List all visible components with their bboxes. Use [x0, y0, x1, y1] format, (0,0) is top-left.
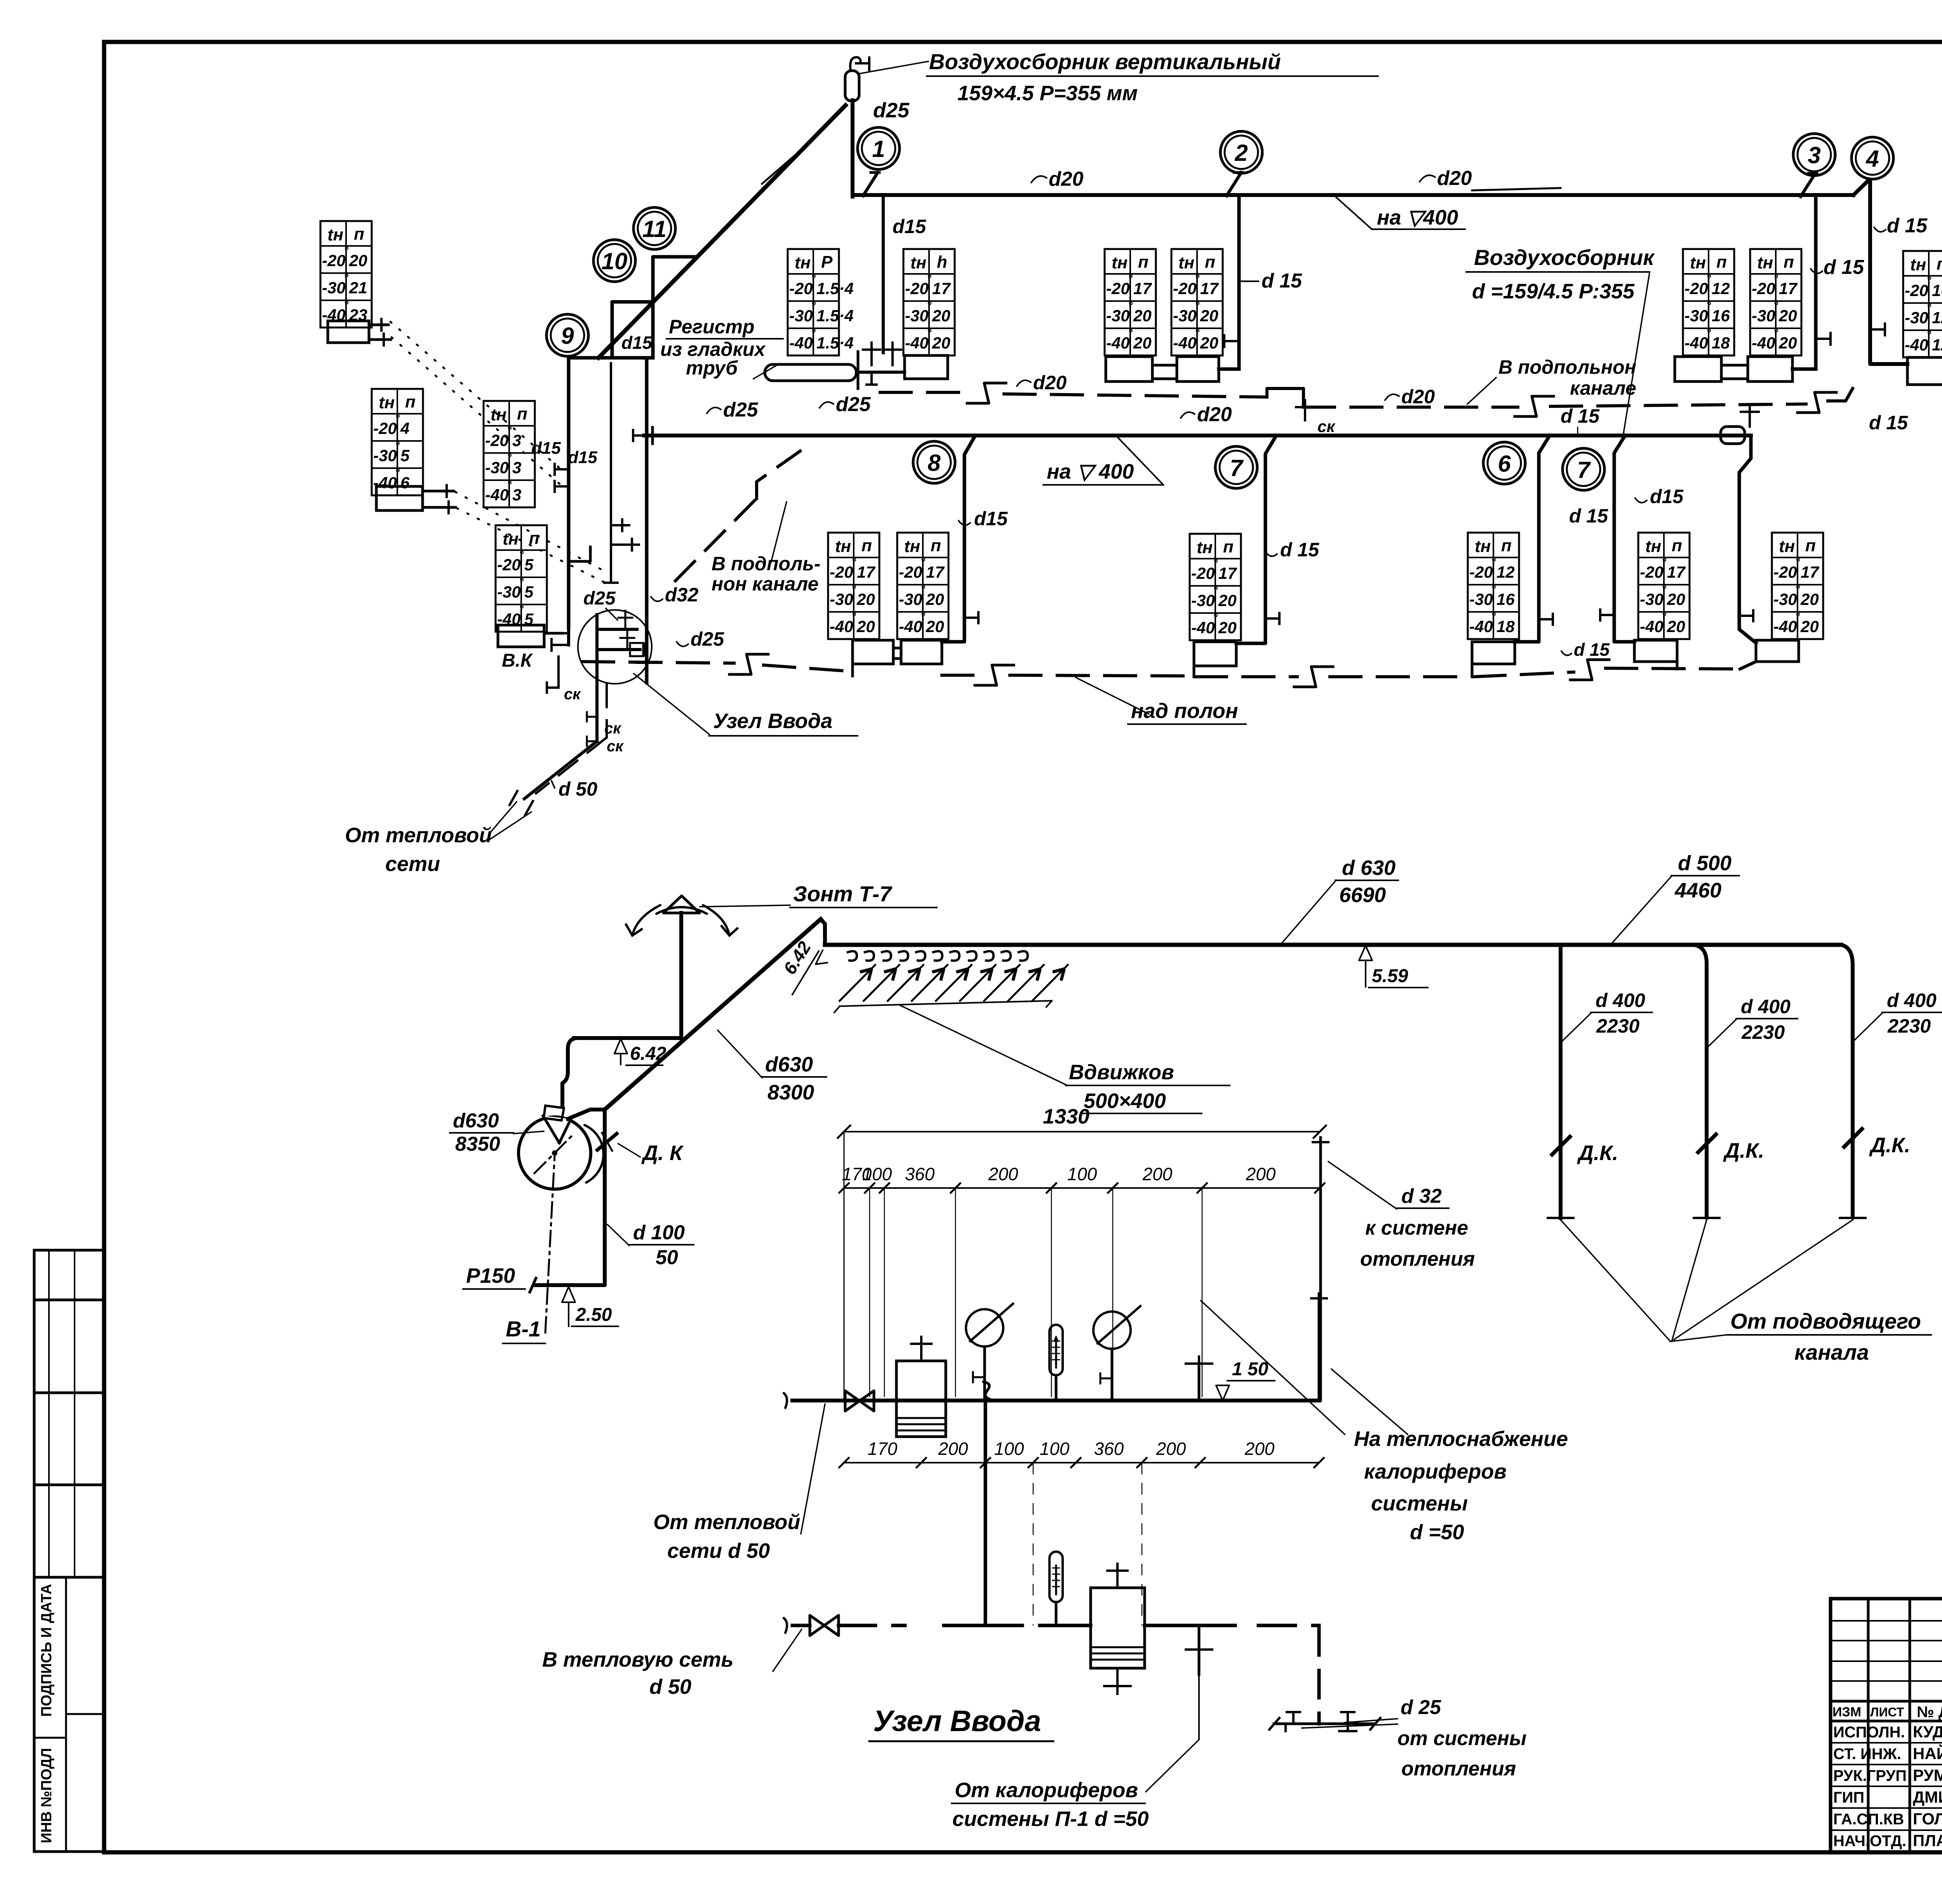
wire down from uzel vvoda (pair)	[595, 682, 599, 741]
title block left rows	[1831, 1620, 1942, 1622]
svg-text:17: 17	[1801, 563, 1819, 581]
svg-text:7: 7	[1230, 455, 1244, 481]
svg-text:d =50: d =50	[1410, 1521, 1464, 1544]
air collector vertical (159x4.5)	[845, 71, 859, 101]
svg-text:d15: d15	[621, 333, 653, 353]
svg-text:-30: -30	[1106, 307, 1130, 325]
svg-text:10: 10	[602, 248, 628, 274]
svg-text:-40: -40	[1752, 334, 1775, 352]
svg-text:°: °	[1795, 583, 1800, 596]
svg-text:над полон: над полон	[1131, 699, 1238, 723]
svg-text:п: п	[354, 225, 364, 244]
svg-text:°: °	[1795, 610, 1800, 623]
svg-text:-20: -20	[1640, 563, 1664, 581]
svg-text:Вдвижков: Вдвижков	[1069, 1061, 1174, 1084]
svg-text:-30: -30	[905, 307, 929, 325]
leaders to Na teplosnabzhenie	[1201, 1301, 1345, 1434]
svg-text:200: 200	[938, 1439, 968, 1459]
wire return2 from uzel	[637, 661, 660, 664]
svg-text:4460: 4460	[1674, 879, 1721, 902]
air collector on main2	[1721, 427, 1745, 444]
svg-text:°: °	[927, 300, 932, 312]
svg-text:°: °	[1128, 272, 1133, 285]
svg-text:°: °	[851, 583, 856, 596]
circle 10	[593, 240, 635, 282]
svg-text:-40: -40	[1640, 617, 1664, 636]
gate valve (bowtie) on return	[810, 1615, 839, 1636]
svg-text:°: °	[519, 603, 524, 616]
register of smooth pipes	[765, 364, 856, 381]
level flag 2.50	[562, 1287, 575, 1302]
uzel vvoda internals	[595, 615, 599, 682]
svg-text:tн: tн	[795, 253, 811, 272]
svg-text:20: 20	[1200, 334, 1218, 352]
svg-text:п: п	[861, 536, 872, 555]
svg-text:-40: -40	[1191, 618, 1215, 637]
svg-text:tн: tн	[835, 537, 851, 556]
svg-text:В подполь-: В подполь-	[712, 553, 821, 575]
svg-text:°: °	[507, 479, 512, 491]
svg-text:Воздухосборник: Воздухосборник	[1474, 245, 1655, 270]
damper X on outlet	[597, 1134, 617, 1150]
supply pipe right riser up	[1318, 1294, 1321, 1401]
riser column right wall	[645, 358, 649, 683]
svg-text:tн: tн	[904, 537, 920, 556]
svg-text:d20: d20	[1049, 168, 1084, 190]
svg-text:°: °	[811, 272, 816, 285]
svg-text:17: 17	[926, 563, 945, 581]
svg-text:8350: 8350	[455, 1133, 500, 1155]
svg-text:систены П-1 d =50: систены П-1 d =50	[952, 1807, 1149, 1831]
circle 2	[1220, 131, 1262, 173]
svg-text:°: °	[1491, 556, 1496, 569]
svg-text:ск: ск	[1317, 417, 1335, 435]
svg-text:17: 17	[1200, 279, 1219, 298]
table row2 6	[1468, 533, 1519, 639]
radiator pair row2 8	[853, 640, 893, 664]
svg-text:-20: -20	[1106, 279, 1130, 298]
table tn/P register	[788, 249, 839, 355]
svg-text:1.5·4: 1.5·4	[816, 334, 854, 352]
circle 9	[546, 314, 588, 356]
table row2 under8 a	[828, 533, 879, 639]
svg-text:ЛИСТ: ЛИСТ	[1870, 1705, 1904, 1719]
svg-text:-20: -20	[497, 556, 521, 574]
radiator row2 7b	[1634, 640, 1677, 662]
svg-text:d25: d25	[873, 99, 910, 122]
svg-text:d 400: d 400	[1741, 996, 1791, 1017]
svg-text:От калориферов: От калориферов	[955, 1779, 1138, 1802]
svg-text:d20: d20	[1197, 403, 1232, 426]
svg-text:°: °	[1706, 300, 1711, 312]
damper X riser3	[1844, 1129, 1862, 1147]
svg-text:КУДКОВА: КУДКОВА	[1913, 1723, 1942, 1741]
svg-text:В-1: В-1	[506, 1317, 541, 1341]
svg-text:канале: канале	[1570, 377, 1636, 399]
svg-text:°: °	[1773, 272, 1778, 285]
svg-text:-40: -40	[789, 334, 813, 352]
svg-text:Д.К.: Д.К.	[1723, 1139, 1764, 1162]
svg-text:5: 5	[400, 446, 410, 465]
svg-text:°: °	[1926, 329, 1932, 341]
connector jog inside column	[569, 547, 590, 561]
corner of main into riser 4	[1853, 179, 1907, 364]
svg-text:-40: -40	[1684, 334, 1708, 352]
bypass vertical pipe	[984, 1401, 987, 1625]
svg-text:°: °	[921, 583, 926, 596]
svg-text:-20: -20	[905, 279, 929, 298]
svg-text:d15: d15	[974, 508, 1008, 530]
circle 3	[1793, 134, 1835, 176]
svg-text:-30: -30	[485, 458, 509, 477]
svg-text:d 15: d 15	[1869, 412, 1908, 434]
svg-text:1.5·4: 1.5·4	[816, 279, 854, 298]
valves ck on drop	[587, 716, 597, 718]
svg-text:на ▽ 400: на ▽ 400	[1047, 460, 1134, 483]
svg-text:-20: -20	[322, 251, 346, 270]
svg-text:360: 360	[905, 1164, 935, 1184]
svg-text:20: 20	[1218, 618, 1237, 637]
svg-text:п: п	[1716, 253, 1727, 272]
svg-text:-40: -40	[1173, 334, 1197, 352]
svg-text:-40: -40	[1106, 334, 1130, 352]
svg-text:100: 100	[1040, 1439, 1070, 1459]
heating system return connection d25	[1274, 1723, 1375, 1725]
circle 8	[913, 441, 955, 483]
svg-text:°: °	[1795, 556, 1800, 569]
wire: return pipe to heat network (dashed)	[792, 1624, 810, 1627]
riser jog arrow at circle 1	[863, 172, 878, 196]
svg-text:Узел Ввода: Узел Ввода	[713, 709, 832, 733]
svg-text:2230: 2230	[1887, 1015, 1931, 1037]
svg-text:°: °	[1662, 583, 1667, 596]
svg-text:п: п	[1205, 253, 1215, 272]
dashed diagonal в подпольном канале	[675, 498, 757, 581]
wire: return in floor channel (dashed, row1)	[880, 391, 971, 394]
valve tee on riser 3	[1816, 338, 1831, 340]
svg-text:Д.К.: Д.К.	[1869, 1134, 1910, 1157]
svg-text:8: 8	[927, 450, 941, 476]
svg-text:°: °	[1491, 610, 1496, 623]
svg-text:°: °	[1195, 272, 1200, 285]
svg-text:°: °	[851, 610, 856, 623]
svg-text:360: 360	[1094, 1439, 1124, 1459]
leaders from riser bottoms to supply channel note	[1561, 1220, 1670, 1341]
svg-text:°: °	[395, 412, 400, 425]
uzel vvoda circle	[578, 610, 652, 684]
svg-text:4: 4	[400, 419, 409, 437]
riser column inner line	[610, 363, 612, 583]
svg-text:20: 20	[1218, 591, 1237, 610]
svg-text:170: 170	[868, 1439, 898, 1459]
siphon S on pipe	[983, 1382, 994, 1401]
svg-text:200: 200	[1244, 1439, 1275, 1459]
svg-text:п: п	[931, 536, 941, 555]
svg-text:d 500: d 500	[1678, 852, 1731, 875]
svg-text:п: п	[1501, 536, 1512, 555]
svg-text:-20: -20	[1173, 279, 1197, 298]
svg-text:d 400: d 400	[1596, 989, 1645, 1011]
svg-text:°: °	[1926, 274, 1932, 287]
svg-text:d 15: d 15	[1569, 505, 1608, 527]
svg-text:d 15: d 15	[1262, 270, 1302, 292]
radiator left C	[498, 625, 544, 647]
svg-text:20: 20	[926, 617, 944, 636]
svg-text:d =159/4.5 Р:355: d =159/4.5 Р:355	[1472, 280, 1635, 303]
circle 1	[858, 127, 900, 169]
svg-text:на ▽400: на ▽400	[1377, 206, 1458, 229]
svg-text:tн: tн	[491, 405, 506, 424]
svg-text:6: 6	[1498, 451, 1511, 477]
svg-text:tн: tн	[1178, 253, 1194, 272]
radiator row2 far	[1756, 640, 1799, 662]
radiator pair row1 far right	[1907, 357, 1942, 385]
svg-text:20: 20	[1778, 334, 1797, 352]
svg-text:2: 2	[1234, 140, 1248, 166]
svg-text:-20: -20	[899, 563, 922, 581]
svg-text:Д.К.: Д.К.	[1577, 1141, 1618, 1165]
svg-text:d 630: d 630	[1342, 856, 1396, 880]
svg-text:ПЛАТОНОВ: ПЛАТОНОВ	[1913, 1831, 1942, 1850]
svg-text:-20: -20	[485, 431, 509, 449]
svg-text:Р: Р	[821, 253, 833, 272]
svg-text:21: 21	[349, 279, 367, 297]
svg-text:12: 12	[1497, 563, 1515, 581]
radiator at register	[905, 355, 948, 379]
svg-text:18: 18	[1497, 617, 1515, 636]
svg-text:11: 11	[642, 216, 666, 242]
svg-text:°: °	[921, 556, 926, 569]
riser jog arrow at circle 3	[1801, 173, 1815, 197]
svg-text:-20: -20	[789, 279, 813, 298]
svg-text:d630: d630	[453, 1110, 499, 1132]
valve stub on supply right	[1198, 1364, 1201, 1401]
svg-text:16: 16	[1712, 307, 1730, 325]
svg-text:-40: -40	[905, 334, 929, 352]
wire: main supply d20 (upper)	[853, 193, 1853, 197]
duct from stack to fan	[574, 1036, 681, 1040]
svg-text:1330: 1330	[1043, 1105, 1089, 1128]
svg-text:200: 200	[1142, 1164, 1173, 1184]
svg-text:100: 100	[994, 1439, 1024, 1459]
svg-text:2230: 2230	[1596, 1015, 1639, 1037]
svg-text:°: °	[1195, 327, 1200, 340]
dotted leaders from radiators to riser	[390, 322, 559, 468]
svg-text:d 100: d 100	[633, 1221, 685, 1244]
svg-text:°: °	[1706, 272, 1711, 285]
svg-text:2230: 2230	[1741, 1021, 1785, 1043]
svg-text:В тепловую сеть: В тепловую сеть	[542, 1648, 734, 1671]
circle 7 second	[1563, 448, 1604, 490]
radiator pair row1 left	[1106, 357, 1152, 381]
svg-text:50: 50	[656, 1246, 678, 1269]
svg-text:нон канале: нон канале	[712, 573, 818, 595]
main diagonal duct d630	[605, 919, 821, 1110]
radiator left A	[328, 321, 369, 343]
svg-text:°: °	[1926, 301, 1932, 314]
svg-text:сети d 50: сети d 50	[667, 1539, 770, 1563]
riser 11 with jog to diagonal	[653, 257, 695, 358]
svg-text:tн: tн	[327, 225, 343, 244]
arrow slashes at heat network end	[510, 791, 517, 805]
svg-text:-40: -40	[485, 486, 509, 504]
svg-text:°: °	[507, 451, 512, 464]
svg-text:20: 20	[1800, 617, 1819, 636]
table right C1	[1903, 251, 1942, 357]
svg-text:канала: канала	[1794, 1340, 1869, 1364]
svg-text:6690: 6690	[1339, 883, 1386, 907]
svg-text:d32: d32	[665, 584, 698, 606]
svg-text:-20: -20	[1191, 564, 1215, 582]
svg-text:-30: -30	[789, 307, 813, 325]
thermometer upper	[1049, 1325, 1063, 1375]
circle 7 first	[1215, 446, 1257, 488]
riser 6	[1515, 435, 1550, 642]
svg-text:8300: 8300	[767, 1081, 814, 1104]
damper X riser2	[1698, 1134, 1716, 1152]
svg-text:1: 1	[872, 136, 885, 162]
svg-text:НАЧ.ОТД.: НАЧ.ОТД.	[1833, 1833, 1906, 1850]
svg-text:100: 100	[1067, 1164, 1097, 1184]
svg-text:-20: -20	[1469, 563, 1493, 581]
svg-text:159×4.5 Р=355 мм: 159×4.5 Р=355 мм	[957, 82, 1138, 105]
svg-text:3: 3	[1808, 142, 1820, 168]
svg-text:В подпольнон: В подпольнон	[1498, 356, 1636, 378]
wire register to radiator	[856, 371, 905, 374]
svg-text:d25: d25	[836, 393, 871, 416]
parallel thin segment on diagonal	[762, 151, 800, 184]
table left cluster T2	[372, 389, 423, 495]
svg-text:°: °	[1213, 584, 1218, 597]
riser jog arrow at circle 2	[1227, 172, 1241, 196]
table left cluster T4	[496, 525, 547, 632]
svg-text:°: °	[927, 272, 932, 285]
svg-text:°: °	[921, 610, 926, 623]
svg-text:°: °	[811, 327, 816, 340]
valve ck below VK	[557, 657, 560, 688]
gate valve (bowtie) on supply	[845, 1391, 874, 1411]
svg-text:Воздухосборник вертикальный: Воздухосборник вертикальный	[929, 49, 1281, 74]
svg-text:-30: -30	[1684, 307, 1708, 325]
wire left wall bottom to VK	[567, 627, 570, 645]
svg-text:17: 17	[857, 563, 875, 581]
svg-text:РУМЯНЦЕВА: РУМЯНЦЕВА	[1913, 1766, 1942, 1784]
svg-text:От подводящего: От подводящего	[1730, 1309, 1921, 1333]
wire: horizontal vent duct	[825, 943, 1841, 947]
svg-text:d 15: d 15	[1887, 214, 1928, 237]
svg-text:d 15: d 15	[1574, 639, 1610, 660]
svg-text:п: п	[1223, 537, 1234, 556]
svg-text:tн: tн	[1197, 538, 1213, 557]
riser 4 lower part valve	[1870, 328, 1885, 331]
svg-text:Д. К: Д. К	[641, 1141, 684, 1165]
wire riser3 to radiator	[1792, 368, 1816, 371]
svg-text:°: °	[927, 327, 932, 340]
radiator row2 7a	[1194, 642, 1236, 666]
svg-text:°: °	[1662, 556, 1667, 569]
svg-text:d25: d25	[723, 399, 759, 421]
riser 3 d15	[1814, 197, 1818, 369]
svg-text:От тепловой: От тепловой	[345, 824, 492, 847]
grille hooks on duct	[847, 951, 857, 960]
svg-text:3: 3	[512, 458, 521, 477]
svg-text:-20: -20	[830, 563, 853, 581]
wire: drop from air collector to main	[851, 100, 854, 197]
fan B-1 volute	[519, 1117, 591, 1189]
svg-text:°: °	[851, 556, 856, 569]
svg-text:°: °	[1128, 327, 1133, 340]
svg-text:отопления: отопления	[1401, 1758, 1516, 1780]
svg-text:20: 20	[349, 251, 367, 270]
svg-text:tн: tн	[910, 253, 926, 272]
svg-text:-30: -30	[1640, 590, 1664, 608]
table left cluster T3	[484, 401, 535, 507]
svg-text:°: °	[1773, 327, 1778, 340]
svg-text:°: °	[519, 549, 524, 561]
svg-text:-20: -20	[1773, 563, 1797, 581]
svg-text:4: 4	[1865, 146, 1879, 172]
svg-text:5.59: 5.59	[1372, 966, 1408, 986]
svg-text:ск: ск	[564, 686, 581, 703]
svg-text:17: 17	[932, 279, 951, 298]
register valves	[870, 350, 873, 365]
svg-text:200: 200	[1156, 1439, 1186, 1459]
wire riser2 to radiator	[1219, 368, 1239, 371]
svg-text:-30: -30	[830, 590, 853, 608]
svg-text:Р150: Р150	[466, 1264, 515, 1287]
svg-text:ПОДПИСЬ И ДАТА: ПОДПИСЬ И ДАТА	[38, 1584, 55, 1717]
fan outlet duct down to P150	[568, 1110, 605, 1119]
label на 400 flag (upper)	[1335, 196, 1372, 229]
leader from vozduhosbornik label to collector on main2	[1624, 273, 1650, 433]
svg-text:tн: tн	[1757, 253, 1773, 272]
valve tee on riser 2	[1224, 340, 1239, 342]
riser column top edge	[569, 356, 653, 360]
svg-text:п: п	[1672, 536, 1682, 555]
radiator row2 6	[1472, 642, 1515, 664]
svg-text:17: 17	[1218, 564, 1237, 582]
svg-text:№ ДОКУМ.: № ДОКУМ.	[1917, 1704, 1942, 1721]
svg-text:tн: tн	[1690, 253, 1706, 272]
riser 7 first	[1236, 435, 1276, 643]
curved arrows at umbrella	[632, 905, 660, 935]
valve tees on column left wall	[555, 468, 569, 470]
svg-text:20: 20	[1667, 617, 1685, 636]
svg-text:2.50: 2.50	[575, 1305, 612, 1325]
svg-text:d15: d15	[893, 216, 926, 237]
riser 10 with jog	[612, 302, 652, 358]
svg-text:труб: труб	[686, 357, 738, 379]
svg-text:°: °	[395, 439, 400, 452]
svg-text:п: п	[1937, 254, 1942, 273]
circle 11	[633, 207, 675, 249]
svg-text:12: 12	[1712, 279, 1730, 298]
valve tees inner	[621, 524, 623, 526]
svg-text:°: °	[507, 424, 512, 437]
svg-text:-40: -40	[830, 617, 853, 636]
svg-text:-30: -30	[899, 590, 922, 608]
vent riser d400 no1	[1559, 945, 1563, 1218]
svg-text:°: °	[1662, 610, 1667, 623]
valve ck on return	[1304, 407, 1306, 420]
svg-text:18: 18	[1712, 334, 1730, 352]
svg-text:СТ. ИНЖ.: СТ. ИНЖ.	[1833, 1745, 1901, 1763]
svg-text:°: °	[519, 576, 524, 589]
svg-text:d 50: d 50	[649, 1675, 691, 1698]
svg-text:°: °	[1213, 557, 1218, 570]
svg-text:d15: d15	[568, 448, 597, 467]
svg-text:5: 5	[524, 556, 534, 574]
